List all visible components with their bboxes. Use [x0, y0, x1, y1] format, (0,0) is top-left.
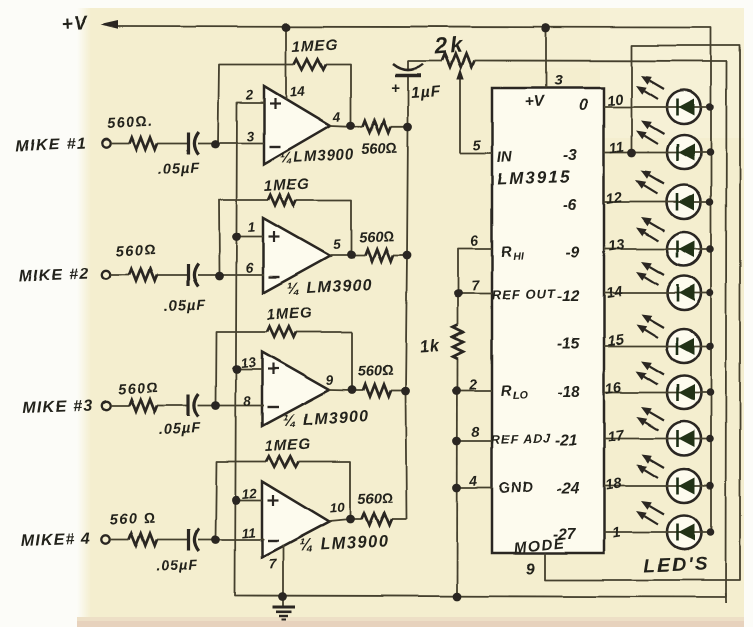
svg-text:560Ω: 560Ω — [115, 242, 157, 260]
LED D2 diode symbol — [676, 144, 679, 161]
LED D4 diode symbol — [676, 241, 679, 258]
capacitor .05uF #1 — [187, 132, 190, 154]
+V arrowhead — [101, 21, 119, 29]
wire: LM3915 output to LED D4 — [604, 248, 711, 250]
MIKE #3 input terminal — [102, 401, 110, 409]
svg-text:+: + — [391, 80, 400, 97]
wire: pin 7 REF OUT stub — [458, 293, 492, 295]
resistor 560ohm input #2 — [129, 269, 157, 281]
LED D2 emission arrows — [650, 126, 664, 134]
svg-text:-24: -24 — [557, 480, 580, 497]
wire MIKE #2 row — [111, 274, 130, 276]
ground symbol — [282, 597, 284, 607]
wire: non-inverting input bus / bottom ground rail / 2K return — [724, 593, 726, 603]
LED D6 body — [667, 329, 701, 363]
capacitor .05uF #4 — [187, 529, 190, 551]
plus input symbol U1c — [268, 368, 279, 370]
junction dot LED D2 cathode bus — [706, 148, 714, 156]
svg-text:13: 13 — [240, 355, 257, 371]
svg-text:1k: 1k — [419, 337, 441, 356]
minus input symbol U1d — [268, 540, 279, 542]
resistor 1MEG U1c feedback — [267, 327, 296, 337]
svg-text:.05µF: .05µF — [159, 421, 202, 438]
wire: +V to LM3915 pin 3 — [545, 28, 547, 88]
wire: U1a output — [330, 125, 363, 128]
LED D7 diode symbol — [676, 384, 679, 401]
svg-text:1MEG: 1MEG — [263, 176, 310, 195]
wire: LM3915 output to LED D7 — [604, 392, 711, 394]
junction dots — [282, 23, 291, 32]
potentiometer wiper arrow to pin 5 — [459, 78, 461, 153]
wire: U1c output — [329, 389, 363, 392]
LED D4 body — [667, 232, 701, 266]
svg-text:560Ω.: 560Ω. — [106, 114, 154, 132]
plus input symbol U1b — [269, 236, 280, 238]
op-amp U1c 1/4 LM3900 — [262, 352, 329, 426]
LED D8 emission arrows — [650, 412, 664, 420]
op-amp U1b 1/4 LM3900 — [263, 218, 330, 293]
LED D8 body — [667, 422, 701, 456]
svg-text:2: 2 — [244, 87, 254, 103]
svg-text:17: 17 — [606, 428, 625, 446]
svg-text:12: 12 — [241, 486, 258, 502]
svg-text:LED'S: LED'S — [643, 554, 709, 577]
svg-text:15: 15 — [606, 332, 625, 350]
wire: U1c pin 13 stub — [237, 369, 263, 371]
svg-text:R: R — [500, 243, 512, 261]
wire: feedback loop U1b — [219, 200, 268, 275]
LED D9 emission arrows — [650, 460, 664, 468]
svg-text:MIKE #3: MIKE #3 — [23, 398, 94, 417]
svg-text:8: 8 — [471, 423, 480, 440]
LED D3 body — [667, 185, 701, 219]
+V top rail wire — [113, 27, 711, 534]
resistor 560ohm output U1b — [365, 249, 393, 261]
wire: LM3915 output to LED D8 — [604, 438, 711, 440]
LED D9 body — [667, 469, 701, 503]
svg-text:2: 2 — [468, 376, 478, 393]
wire: feedback loop U1c — [216, 332, 267, 406]
svg-text:IN: IN — [496, 148, 513, 166]
svg-text:-12: -12 — [557, 288, 580, 305]
wire: RHI REFOUT RLO REFADJ GND chain — [458, 249, 492, 325]
wire: feedback loop U1d — [216, 462, 267, 540]
resistor 2K — [442, 54, 474, 67]
MIKE #1 input terminal — [102, 139, 110, 147]
op-amp U1a 1/4 LM3900 — [264, 87, 330, 165]
svg-text:-15: -15 — [557, 336, 580, 353]
wire: U1b output — [330, 254, 365, 256]
svg-text:.05µF: .05µF — [156, 558, 199, 575]
wire: feedback loop U1a — [218, 65, 294, 144]
resistor 560ohm input #1 — [129, 137, 157, 149]
LED D4 emission arrows — [650, 223, 664, 231]
plus input symbol U1a — [270, 103, 281, 105]
svg-text:-9: -9 — [565, 245, 579, 262]
resistor 1K — [453, 325, 463, 359]
wire: U1d output — [329, 520, 362, 522]
wire: LM3915 pin 5 IN stub — [460, 152, 492, 154]
capacitor .05uF #2 — [187, 264, 190, 286]
svg-text:MIKE# 4: MIKE# 4 — [21, 531, 92, 550]
svg-text:+V: +V — [61, 13, 89, 35]
resistor 560ohm output U1a — [363, 121, 391, 133]
IC U2 LM3915 body — [492, 88, 604, 553]
wire: LM3915 output to LED D9 — [604, 485, 711, 487]
junction dot LED D3 cathode bus — [706, 198, 714, 206]
svg-text:-21: -21 — [555, 432, 577, 449]
svg-text:3: 3 — [554, 72, 563, 89]
LED D3 emission arrows — [650, 176, 664, 184]
resistor 560ohm input #3 — [129, 400, 157, 412]
svg-text:.05µF: .05µF — [158, 161, 201, 178]
resistor 1MEG U1a feedback — [294, 59, 326, 69]
minus input symbol U1b — [269, 276, 280, 278]
svg-text:-18: -18 — [557, 384, 580, 401]
LED D1 body — [667, 90, 701, 124]
wire: MODE pin 9 to pin -3 node — [545, 46, 740, 581]
wire: U1d pin 12 stub — [236, 500, 262, 502]
minus input symbol U1c — [268, 406, 279, 408]
svg-text:14: 14 — [289, 84, 306, 100]
MIKE #4 input terminal — [102, 535, 110, 543]
svg-text:18: 18 — [604, 476, 623, 494]
LED D7 body — [667, 376, 701, 410]
wire: pin 2 RLO stub — [457, 390, 492, 392]
LED D8 diode symbol — [676, 430, 679, 447]
svg-text:GND: GND — [498, 479, 534, 497]
junction dot LED D8 cathode bus — [706, 435, 714, 443]
LED D1 diode symbol — [676, 99, 679, 116]
capacitor .05uF #3 — [187, 395, 190, 417]
svg-text:REF ADJ: REF ADJ — [491, 431, 552, 447]
svg-text:.05µF: .05µF — [164, 298, 207, 315]
wire: pin 4 GND stub — [457, 487, 492, 489]
junction dot LED D7 cathode bus — [706, 389, 714, 397]
svg-text:-3: -3 — [563, 147, 577, 164]
svg-text:14: 14 — [605, 284, 623, 302]
LED D6 emission arrows — [650, 320, 664, 328]
svg-text:560Ω: 560Ω — [117, 380, 159, 398]
LED D5 diode symbol — [676, 285, 679, 302]
LED D6 diode symbol — [676, 338, 679, 355]
plus input symbol U1d — [268, 499, 279, 501]
svg-text:560Ω: 560Ω — [362, 141, 398, 158]
resistor 560ohm input #4 — [129, 534, 157, 546]
wire MIKE #4 row — [111, 539, 130, 541]
svg-text:R: R — [500, 382, 512, 400]
LED D1 emission arrows — [650, 81, 664, 89]
svg-text:560Ω: 560Ω — [358, 491, 394, 508]
LED D5 emission arrows — [650, 267, 664, 275]
LED D9 diode symbol — [676, 478, 679, 495]
resistor 1MEG U1d feedback — [266, 456, 299, 466]
LED D10 emission arrows — [650, 506, 664, 514]
capacitor 1uF — [407, 61, 409, 72]
wire: pin 8 REF ADJ stub — [457, 440, 492, 442]
svg-text:4: 4 — [331, 109, 341, 125]
svg-text:1MEG: 1MEG — [266, 305, 313, 324]
svg-text:2k: 2k — [433, 32, 466, 59]
svg-text:4: 4 — [468, 472, 478, 489]
svg-text:9: 9 — [526, 561, 535, 578]
svg-text:MIKE #1: MIKE #1 — [16, 136, 87, 155]
wire MIKE #3 row — [111, 405, 130, 407]
wire: 1uF top to 2K — [408, 60, 442, 62]
MIKE #2 input terminal — [102, 271, 110, 279]
wire: LM3915 output to LED D6 — [604, 345, 711, 347]
minus input symbol U1a — [270, 146, 281, 148]
resistor 560ohm output U1c — [363, 385, 391, 397]
wire: LM3915 output to LED D10 — [604, 532, 711, 534]
wire: summing bus to 1uF and IN network — [406, 76, 409, 520]
wire: U1d pin 7 to ground — [282, 545, 284, 597]
svg-text:5: 5 — [472, 136, 481, 153]
svg-text:LM3915: LM3915 — [496, 167, 571, 189]
svg-text:560 Ω: 560 Ω — [109, 511, 157, 529]
svg-text:-6: -6 — [563, 197, 577, 214]
wire: LM3915 output to LED D5 — [604, 292, 711, 294]
LED D3 diode symbol — [676, 194, 679, 211]
LED D5 body — [667, 276, 701, 310]
junction dot LED D1 cathode bus — [706, 103, 714, 111]
svg-text:1: 1 — [247, 220, 256, 235]
junction dot LED D6 cathode bus — [706, 342, 714, 350]
wire: LM3915 output to LED D1 — [604, 106, 711, 108]
resistor 1MEG U1b feedback — [268, 195, 296, 205]
junction dot LED D4 cathode bus — [706, 245, 714, 253]
svg-text:6: 6 — [470, 232, 479, 249]
wire MIKE #1 row — [111, 142, 130, 144]
svg-text:13: 13 — [607, 237, 625, 255]
svg-text:REF OUT: REF OUT — [492, 286, 557, 303]
svg-text:560Ω: 560Ω — [359, 229, 395, 246]
LED D10 body — [667, 516, 701, 550]
svg-text:0: 0 — [579, 97, 588, 114]
svg-text:1MEG: 1MEG — [264, 436, 311, 455]
wire: 2K right side — [474, 60, 727, 63]
wire: U1b pin 1 stub — [237, 236, 264, 238]
svg-text:HI: HI — [513, 250, 525, 263]
svg-text:10: 10 — [329, 500, 346, 516]
svg-text:560Ω: 560Ω — [358, 363, 394, 380]
junction dot LED D10 cathode bus — [706, 529, 714, 537]
svg-text:16: 16 — [604, 380, 623, 398]
wire: LM3915 output to LED D2 — [604, 151, 711, 153]
svg-text:LO: LO — [513, 389, 528, 402]
svg-text:MIKE #2: MIKE #2 — [19, 266, 90, 285]
svg-text:10: 10 — [606, 92, 624, 110]
svg-text:11: 11 — [608, 139, 625, 157]
svg-text:+V: +V — [524, 93, 546, 111]
wire: LM3915 output to LED D3 — [604, 201, 711, 203]
resistor 560ohm output U1d — [362, 514, 392, 526]
wire: +V to op-amp U1a pin 14 — [285, 28, 287, 101]
svg-text:12: 12 — [605, 190, 623, 208]
LED D7 emission arrows — [650, 366, 664, 374]
junction dot LED D9 cathode bus — [706, 482, 714, 490]
op-amp U1d 1/4 LM3900 — [262, 482, 329, 558]
svg-text:1MEG: 1MEG — [291, 37, 338, 56]
LED D10 diode symbol — [676, 524, 679, 541]
svg-text:11: 11 — [241, 525, 256, 541]
LED D2 body — [667, 135, 701, 169]
svg-text:1µF: 1µF — [410, 83, 441, 102]
junction dot LED D5 cathode bus — [706, 289, 714, 297]
